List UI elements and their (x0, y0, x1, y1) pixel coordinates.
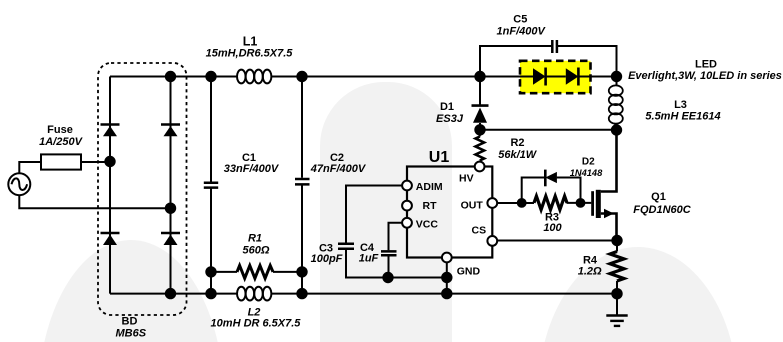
wire C4 bottom (388, 257, 390, 278)
svg-text:1.2Ω: 1.2Ω (578, 266, 602, 278)
resistor R2 (476, 137, 485, 161)
wire bottom rail 2 (271, 293, 617, 295)
svg-text:LED: LED (695, 59, 717, 71)
wire C3 bottom (346, 250, 447, 278)
wire top rail (110, 76, 480, 78)
svg-text:47nF/400V: 47nF/400V (310, 163, 367, 175)
background blob left (38, 240, 224, 342)
wire D2 branch (522, 178, 581, 203)
wire bottom rail (110, 293, 237, 295)
wire LED row overlay (520, 76, 591, 78)
capacitor C3 (338, 244, 354, 249)
wire fuse to bridge (81, 161, 110, 163)
svg-text:Everlight,3W, 10LED in series: Everlight,3W, 10LED in series (628, 70, 782, 82)
diode D1 (472, 106, 489, 123)
svg-text:RT: RT (423, 200, 438, 212)
wire LED row (480, 76, 617, 78)
svg-text:Fuse: Fuse (47, 124, 73, 136)
wire OUT to R3 (492, 202, 534, 204)
svg-text:56k/1W: 56k/1W (498, 149, 538, 161)
svg-text:C5: C5 (513, 14, 527, 26)
svg-text:33nF/400V: 33nF/400V (224, 163, 280, 175)
wire R2 leads (479, 130, 481, 167)
svg-text:1N4148: 1N4148 (570, 168, 603, 178)
wire L3 leads (616, 77, 618, 131)
svg-text:GND: GND (457, 266, 481, 278)
svg-text:15mH,DR6.5X7.5: 15mH,DR6.5X7.5 (206, 48, 294, 60)
wire R3 to gate node (567, 202, 592, 204)
bridge dashed box BD (98, 63, 187, 315)
svg-text:Q1: Q1 (651, 191, 666, 203)
U1 box (407, 167, 492, 258)
wire CS to source (492, 240, 617, 242)
svg-text:VCC: VCC (416, 219, 439, 231)
U1 pin labels (416, 172, 486, 277)
inductor L2 (237, 287, 271, 301)
svg-text:D2: D2 (582, 156, 595, 167)
svg-text:560Ω: 560Ω (243, 245, 270, 257)
svg-text:10mH DR 6.5X7.5: 10mH DR 6.5X7.5 (211, 318, 302, 330)
svg-text:L1: L1 (243, 35, 258, 49)
svg-text:1nF/400V: 1nF/400V (497, 26, 547, 38)
inductor L3 (609, 85, 623, 123)
svg-text:100: 100 (543, 222, 562, 234)
background blob right (538, 247, 738, 342)
capacitor C4 (381, 251, 397, 255)
AC source V1 (8, 173, 30, 195)
resistor R1 (237, 266, 273, 279)
svg-text:FQD1N60C: FQD1N60C (633, 204, 692, 216)
wire AC to fuse (19, 162, 41, 173)
svg-text:5.5mH EE1614: 5.5mH EE1614 (645, 111, 720, 123)
svg-text:CS: CS (472, 224, 487, 236)
svg-text:ADIM: ADIM (416, 181, 443, 193)
wire bridge left vertical (109, 77, 111, 294)
transistor Q1 (591, 130, 616, 241)
wire R4 leads (616, 240, 618, 293)
capacitor C5 (552, 40, 557, 53)
capacitor C1 (204, 183, 218, 188)
wire C2 vertical (301, 77, 303, 294)
svg-text:ES3J: ES3J (436, 113, 464, 125)
svg-text:OUT: OUT (461, 200, 484, 212)
fuse F1 (41, 154, 81, 169)
bridge diode top-left (101, 125, 120, 137)
resistor R3 (534, 196, 567, 210)
svg-text:R1: R1 (248, 232, 262, 244)
svg-text:1A/250V: 1A/250V (39, 136, 83, 148)
svg-text:1uF: 1uF (359, 253, 379, 265)
LED 1 (533, 68, 546, 86)
wire C1 vertical (210, 77, 212, 294)
svg-text:100pF: 100pF (311, 253, 343, 265)
wire D1 dot to L3 bottom (480, 129, 617, 131)
svg-text:D1: D1 (440, 101, 454, 113)
svg-text:MB6S: MB6S (116, 327, 147, 339)
wire ground stub (616, 294, 618, 316)
wire bridge right vertical (170, 77, 172, 294)
ground symbol (606, 316, 627, 326)
wire VCC to C4 (389, 223, 408, 250)
LED 2 (566, 68, 579, 86)
resistor R4 (610, 252, 624, 281)
wire D1 top (479, 77, 481, 106)
svg-text:L3: L3 (674, 99, 687, 111)
inductor L1 (237, 70, 271, 84)
wire GND pin down (446, 258, 448, 294)
background blob center (320, 82, 452, 342)
diode D2 (545, 170, 557, 187)
bridge diode bottom-right (161, 233, 180, 245)
svg-text:BD: BD (122, 316, 138, 328)
wire R1 rail right (273, 271, 302, 273)
wire AC bottom to bridge (19, 195, 170, 208)
bridge diode top-right (161, 125, 180, 137)
wire D1 to dot (479, 123, 481, 130)
wire ADIM to C3 (346, 186, 407, 243)
bridge diode bottom-left (101, 233, 120, 245)
svg-text:R2: R2 (510, 137, 524, 149)
svg-text:U1: U1 (429, 149, 450, 166)
svg-text:HV: HV (459, 172, 474, 184)
wire C5 branch (480, 46, 617, 77)
U1 pins (402, 162, 497, 263)
LED box (520, 61, 591, 93)
wire R1 rail (211, 271, 237, 273)
capacitor C2 (295, 179, 310, 184)
